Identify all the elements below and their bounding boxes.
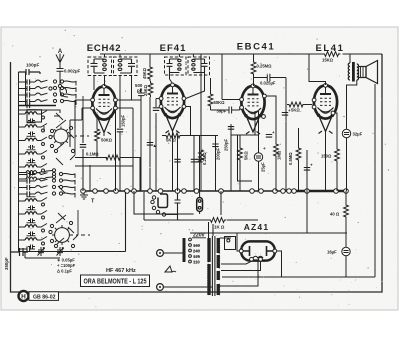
IF T1B capacitor (128, 59, 135, 73)
top bus wire (100, 53, 382, 55)
coil row M1 (19, 200, 26, 202)
bus terminals extra (194, 189, 199, 194)
wire bottom-left return (19, 192, 126, 252)
capacitor C 250pF (230, 124, 232, 191)
wire row tails top bank (64, 81, 77, 86)
tube U4 EL41 side pins (312, 98, 316, 102)
wire osc box links (19, 110, 61, 131)
resistor R 15K (in B+ bus) (323, 51, 343, 57)
dial contacts (152, 196, 155, 199)
wire AZ41 plate left (220, 233, 239, 251)
capacitor row A3 (19, 94, 28, 96)
IF T2A capacitor (167, 59, 173, 73)
capacitor row B4 (19, 193, 28, 195)
wire EF41 left pin to cap column (156, 98, 159, 100)
wire column x201 (200, 54, 202, 191)
wire bottom link y258 (25, 252, 60, 259)
wire transformer feed stubs (209, 191, 222, 238)
wire EBC41 grid return (222, 54, 240, 100)
resistor R 0.2M (199, 148, 204, 164)
IF T2A coil (178, 59, 182, 70)
wire row tails lower bank (63, 173, 76, 178)
capacitor C plus 1 (282, 113, 288, 116)
tube U4 EL41 envelope (314, 84, 337, 134)
capacitor pair AF coupling (178, 136, 200, 192)
scan speckles (4, 30, 389, 308)
wire x307 below bus (306, 191, 308, 233)
wire mains line y214 (134, 191, 194, 214)
main chassis bus wire (83, 190, 296, 192)
oscillator coil box (27, 110, 42, 122)
wire B+ line y233 (190, 232, 347, 234)
antenna symbol (56, 54, 64, 68)
trimmer capacitor CT4 (57, 247, 64, 256)
resistor R 0.1M (75, 157, 107, 159)
wire T1A cap to grid pin (93, 76, 95, 91)
wire speaker return (374, 84, 376, 277)
tube U5 AZ41 rectifier envelope (241, 241, 275, 260)
switch S2 contacts (50, 224, 53, 227)
wire EL41 heater down (325, 132, 327, 192)
capacitor C cathode EL41 (306, 150, 308, 191)
wire ECH42 top pin to T1 (104, 76, 106, 87)
wire ECH42 heater down (103, 133, 105, 137)
resistor R 40 (field) (345, 191, 347, 203)
bus junction terminals (81, 189, 86, 194)
wire EF41 heater down (172, 131, 174, 191)
tube U5 AZ41 pins (239, 249, 243, 253)
capacitor C 32uF electrolytic (347, 80, 357, 129)
output transformer T4 (349, 54, 351, 63)
capacitor row A5 (19, 105, 28, 107)
IF transformer T1 can A (dashed) (88, 57, 112, 76)
resistor R 5K (EBC cathode) (239, 135, 241, 146)
IF transformer T2 can B (dashed) (188, 57, 210, 75)
wire mid links left (89, 165, 91, 191)
resistor R 25K (148, 81, 153, 97)
transformer T3 tap terminals (189, 238, 192, 241)
capacitor row B3 (19, 187, 28, 189)
coil row M4 (19, 239, 26, 241)
IF T1B link wires (120, 59, 132, 73)
capacitor row A1 (19, 81, 28, 83)
wire column x83 with capacitor (82, 120, 84, 191)
resistor R 45K (148, 65, 153, 81)
wire column x286 (285, 78, 287, 192)
IF T1A link wires (94, 59, 105, 73)
wire AZ41 cathode down (220, 261, 258, 286)
wire T1B cap down (131, 76, 133, 101)
resistor R 0.25M (253, 54, 255, 60)
wire T1 bus stubs (105, 54, 121, 57)
tube U3 EBC41 diode plate leads (255, 111, 259, 135)
coil row L4 (19, 153, 26, 155)
wire ECH42 right pins (117, 100, 141, 128)
wire bank risers (70, 96, 83, 240)
coil row X2 (19, 178, 27, 180)
IF T1A coil (103, 59, 107, 70)
capacitor row A4 (19, 101, 28, 103)
transformer T3 core (212, 236, 215, 296)
tube U3 EBC41 envelope (241, 84, 264, 134)
capacitor C 25uF electrolytic (258, 135, 260, 153)
wire P2 to transformer (163, 286, 212, 288)
tube U3 EBC41 lower right pin (262, 115, 266, 119)
fuse symbol (165, 266, 176, 272)
wire cathode net box (238, 135, 253, 181)
tube U3 EBC41 side pins (240, 98, 244, 102)
logo roundel (19, 291, 29, 301)
capacitor C at x177 (175, 193, 181, 220)
dial escutcheon (158, 194, 168, 208)
IF T2A links (170, 59, 180, 73)
coil row X1 (19, 172, 27, 174)
tube U2 EF41 side pins (159, 97, 163, 101)
IF T1B coil (118, 59, 122, 70)
wire switch risers left (70, 100, 82, 147)
wire T2 bus stubs (179, 54, 193, 57)
wire EF41 screen (186, 107, 191, 136)
wire EF41 top pin to T2 (170, 73, 173, 84)
schematic border frame (11, 54, 383, 292)
wire heater line y220 (144, 192, 258, 220)
resistor R 50K below ECH42 (95, 127, 100, 143)
rotary switch S1 wafer (52, 127, 90, 146)
resistor R 0.5M volume (298, 128, 300, 146)
IF transformer T1 can B (dashed) (114, 57, 138, 76)
IF T2B links (193, 59, 204, 73)
model box ORA BELMONTE (81, 275, 150, 287)
logo box GB 86-02 (29, 292, 59, 301)
wire P1 to transformer (163, 252, 184, 254)
rotary switch S2 wafer (52, 225, 90, 245)
pilot lamp P2 (157, 284, 164, 291)
capacitor C delta (147, 143, 153, 146)
wire T1B coil down with capacitor (119, 76, 121, 129)
IF T2B capacitor (202, 59, 208, 73)
wire EL41 grid top (309, 54, 326, 85)
tube U2 EF41 envelope (161, 83, 184, 133)
wire AZ41 heater 1 (221, 261, 252, 264)
coil row L3 (19, 140, 26, 142)
capacitor C 16uF electrolytic (342, 247, 350, 255)
wire diode tie (231, 134, 259, 136)
coil row M3 (19, 226, 26, 228)
capacitor C 200pF (215, 136, 217, 192)
resistor box HT (225, 237, 236, 250)
band switch contacts B (49, 87, 52, 90)
capacitor C-ant 0.002uF (57, 67, 64, 90)
tube U1 ECH42 side pins (91, 98, 95, 102)
IF transformer T2 can A (dashed) (165, 57, 187, 75)
ground T chassis (80, 192, 88, 199)
capacitor C 350pF (11, 248, 29, 256)
resistor R 150 (335, 113, 337, 147)
resistor R 5K (EF41 screen) (162, 135, 165, 137)
capacitor row 100pF (19, 69, 41, 75)
wire AZ41 heater 2 (221, 261, 261, 270)
capacitor row B2 (19, 180, 28, 182)
resistor R 5K grid EL41 (287, 102, 305, 107)
wire row link y110 (27, 110, 60, 114)
capacitor row B1 (19, 174, 28, 176)
wire junction bar (19, 105, 57, 107)
transformer T3 primary winding (208, 238, 211, 262)
coil row L2 (19, 126, 26, 128)
wire ECH42 left pins (75, 100, 91, 120)
wire arm diagonals mid bank (56, 113, 65, 220)
transformer T3 secondary windings (217, 238, 220, 253)
wire AZ41 plate right (277, 251, 282, 277)
tuner bank bus wires (19, 72, 26, 252)
wire HT return y277 (222, 276, 375, 278)
wire column x156 with cap (155, 99, 157, 192)
wire column x133 (132, 128, 134, 191)
capacitor row bottom (19, 248, 28, 250)
resistor R 50K (EF41) (210, 78, 212, 92)
wire column x115.5 (115, 110, 117, 191)
switch S1 contacts (50, 129, 53, 132)
fuse holder F1 (197, 198, 203, 212)
wire antenna to band switch (60, 90, 68, 97)
loudspeaker LS (359, 67, 367, 78)
coil row L5 (19, 166, 26, 168)
resistor R 1K (209, 218, 227, 223)
IF T1A capacitor (91, 59, 98, 73)
tube U1 ECH42 envelope (92, 85, 115, 135)
coil row L1 (19, 113, 26, 115)
coil row M2 (19, 213, 26, 215)
power transformer T3 primary plate (183, 238, 186, 262)
IF T2B coil (192, 59, 196, 70)
capacitor row A2 (19, 88, 28, 90)
capacitor C 0.025uF (254, 74, 287, 81)
wire T2 right to EF41 plate (186, 73, 205, 99)
pilot lamp P1 (157, 250, 164, 257)
trimmer capacitor CT3 (38, 247, 45, 256)
capacitor C plus 2 (266, 135, 272, 138)
resistor R 1M (266, 96, 276, 142)
wire dial to line (166, 214, 177, 216)
